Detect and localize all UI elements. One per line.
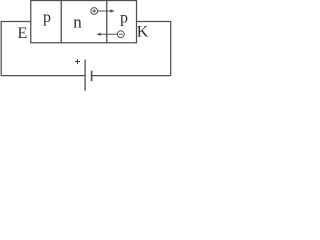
svg-text:n: n xyxy=(73,13,82,32)
wire: bottom left to battery xyxy=(1,75,85,77)
svg-text:E: E xyxy=(18,25,28,42)
wire: collector lead right xyxy=(137,22,171,76)
battery B1 positive plate (long) xyxy=(84,60,86,91)
svg-text:p: p xyxy=(43,9,51,26)
battery B1 negative plate (short) xyxy=(91,71,93,82)
junction J1 (p-n divider) xyxy=(60,1,62,43)
transistor body outline xyxy=(31,1,137,43)
wire: emitter lead left xyxy=(1,22,31,76)
wire: bottom right to battery xyxy=(92,75,171,77)
hole drift arrow xyxy=(98,9,115,12)
svg-text:p: p xyxy=(120,10,128,27)
battery polarity + xyxy=(75,59,80,64)
svg-text:K: K xyxy=(137,23,149,40)
electron carrier circle - xyxy=(117,31,124,38)
electron drift arrow xyxy=(96,33,117,36)
hole carrier circle + xyxy=(91,8,98,15)
junction J2 (n-p divider) xyxy=(106,1,108,43)
